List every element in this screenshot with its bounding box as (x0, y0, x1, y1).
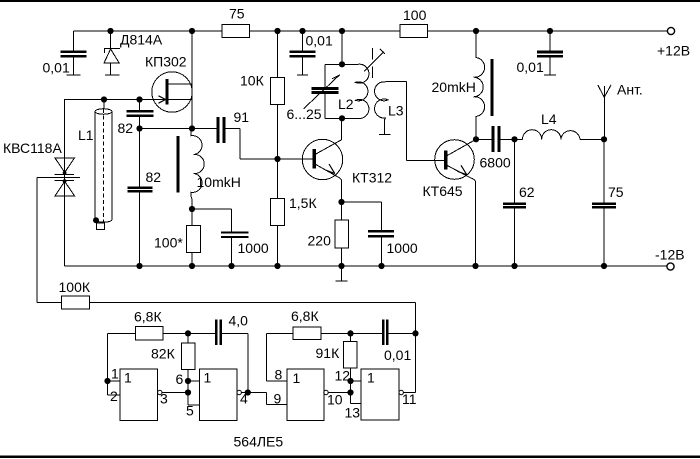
wire: 0,01-3 to feedback vertical (389, 332, 416, 334)
junction rail/C-0.01-2 (299, 28, 305, 34)
label L3 (388, 103, 404, 119)
junction rail/C-0.01-4 (547, 28, 553, 34)
value label 75 output (608, 184, 624, 200)
wire: L3 to KT645 base (406, 81, 444, 160)
wire: gate1 input branch (108, 333, 136, 395)
svg-text:6800: 6800 (480, 155, 511, 171)
svg-text:0,01: 0,01 (384, 347, 411, 363)
svg-text:0,01: 0,01 (306, 33, 333, 49)
capacitor 4,0 (215, 319, 222, 345)
junction gate3 output node (347, 389, 353, 395)
value label 20mkH (432, 79, 476, 95)
pin label 6 (176, 371, 184, 387)
svg-text:6,8К: 6,8К (134, 309, 162, 325)
value label 4,0 (229, 313, 249, 329)
svg-text:9: 9 (274, 391, 282, 407)
wire: gate line y=99.5 (65, 99, 193, 101)
value label 6...25 (287, 106, 322, 122)
junction L2 top (339, 61, 345, 67)
value label 100 top (403, 7, 427, 23)
svg-text:10: 10 (327, 392, 343, 408)
capacitor 0,01 (fourth) (537, 31, 563, 75)
label L4 (541, 111, 557, 127)
svg-text:82: 82 (118, 120, 134, 136)
svg-text:82: 82 (146, 169, 162, 185)
wire: L2 top/bottom horizontals and left branch (325, 64, 358, 118)
resistor 75 (top) (222, 25, 250, 38)
svg-text:6...25: 6...25 (287, 106, 322, 122)
junction rail/62 (511, 263, 517, 269)
svg-text:6,8К: 6,8К (291, 308, 319, 324)
svg-text:13: 13 (345, 405, 361, 421)
svg-text:62: 62 (519, 184, 535, 200)
value label 75 top (229, 6, 245, 22)
svg-text:1: 1 (367, 370, 375, 386)
junction gate-wire/C-82-1 (136, 96, 142, 102)
junction L2 bottom (339, 115, 345, 121)
label Д814А (120, 32, 163, 48)
svg-text:1,5К: 1,5К (289, 195, 317, 211)
capacitor 1000 (second) (368, 230, 394, 266)
value label 1000 second (387, 240, 418, 256)
label КВС118А (3, 140, 62, 156)
label КП302 (145, 54, 187, 70)
pin label 2 (110, 388, 118, 404)
value label 91 (234, 109, 250, 125)
svg-text:8: 8 (275, 367, 283, 383)
svg-text:L1: L1 (78, 127, 94, 143)
wire: gate3 input branch (267, 333, 294, 381)
value label 1,5К (289, 195, 317, 211)
junction rail/1000-1 (228, 263, 234, 269)
svg-text:100*: 100* (154, 235, 183, 251)
junction gate1 inputs (104, 378, 110, 384)
pin label 4 (240, 391, 248, 407)
value label 91К (316, 345, 341, 361)
svg-text:1: 1 (293, 370, 301, 386)
wire: varactor bottom to -12V rail (64, 158, 66, 266)
svg-text:КП302: КП302 (145, 54, 187, 70)
junction rail/L2 (339, 28, 345, 34)
capacitor 0,01 (second) (290, 31, 316, 75)
svg-text:1: 1 (124, 370, 132, 386)
pin label 11 (402, 391, 417, 407)
junction gate1 output node (185, 389, 191, 395)
value label 62 (519, 184, 535, 200)
junction 4,0/gate2-out (245, 389, 251, 395)
node -12V terminal (655, 247, 685, 271)
resistor 6,8К (first) (136, 327, 164, 340)
junction 82-cap/source-row (136, 125, 142, 131)
trimmer capacitor 6...25 (304, 75, 341, 109)
junction rail/82-lower (136, 263, 142, 269)
resistor 6,8К (second) (293, 327, 321, 340)
svg-text:100К: 100К (59, 279, 91, 295)
inductor L4 (515, 130, 605, 140)
svg-text:12: 12 (335, 368, 351, 384)
wire: left vertical to varactor (64, 99, 66, 158)
svg-text:220: 220 (308, 233, 332, 249)
ground stub below rail (336, 266, 348, 281)
junction rail/KT645 emitter (472, 263, 478, 269)
capacitor 6800 (476, 126, 515, 152)
wire: 6,8K-2 to 0,01 row (321, 332, 382, 334)
svg-text:КВС118А: КВС118А (3, 140, 62, 156)
junction KT312 emitter node (338, 199, 344, 205)
value label 0,01 fourth (517, 59, 544, 75)
svg-text:6: 6 (176, 371, 184, 387)
svg-text:-12В: -12В (655, 247, 685, 263)
junction rail/1000-2 (378, 263, 384, 269)
svg-text:91: 91 (234, 109, 250, 125)
svg-text:Д814А: Д814А (120, 32, 163, 48)
junction rail/Q1 drain (189, 28, 195, 34)
junction rail/VD1 (107, 28, 113, 34)
zener diode VD1 Д814А (104, 31, 120, 75)
junction rail/75-output (601, 263, 607, 269)
wire: feedback line y=302 (90, 302, 416, 392)
wire: gate3 out to gate4 in (328, 392, 350, 394)
inductor 10mkH with core (177, 129, 205, 210)
svg-text:L2: L2 (338, 96, 354, 112)
value label 6,8К first (134, 309, 162, 325)
svg-text:11: 11 (402, 391, 417, 407)
junction rail/R-10K (274, 28, 280, 34)
wire: gate4 out to feedback (403, 392, 415, 394)
wire: rail to L2 top (341, 31, 343, 64)
gate U1.3 (564ЛЕ5) (287, 369, 328, 421)
pin label 13 (345, 405, 361, 421)
transistor Q3 КТ645 (435, 139, 476, 266)
wire: varactor tap to 100K (37, 178, 80, 303)
value label 0,01 (C1) (43, 60, 70, 76)
junction gate-wire/L1 (101, 96, 107, 102)
transistor Q2 КТ312 (302, 139, 342, 202)
wire: emitter to C1000-2 (342, 202, 382, 230)
svg-text:L3: L3 (388, 103, 404, 119)
junction gate4 pin12 (347, 378, 353, 384)
transistor Q1 КП302 (FET) (152, 72, 192, 112)
wire: gate2 out to gate3 in (241, 393, 287, 405)
label 564ЛЕ5 (234, 434, 284, 450)
wire: 4,0 to gate2 output (222, 333, 248, 392)
resistor 100* (187, 209, 201, 266)
resistor 10К (271, 31, 285, 159)
pin label 10 (327, 392, 343, 408)
resistor 220 (335, 202, 349, 266)
svg-text:5: 5 (186, 403, 194, 419)
svg-text:0,01: 0,01 (517, 59, 544, 75)
gate U1.1 (564ЛЕ5) (120, 369, 162, 421)
junction rail/L-20mkH (473, 28, 479, 34)
pin label 5 (186, 403, 194, 419)
label КТ645 (423, 183, 463, 199)
junction rail/1,5K (274, 263, 280, 269)
inductor L3 (375, 81, 407, 134)
svg-text:1000: 1000 (238, 240, 269, 256)
svg-text:КТ312: КТ312 (352, 170, 392, 186)
svg-text:+12В: +12В (657, 43, 690, 59)
value label 0,01 second (306, 33, 333, 49)
junction feedback/0,01-3 (412, 330, 418, 336)
value label 6800 (480, 155, 511, 171)
junction gate2 pin6 (185, 378, 191, 384)
svg-text:Ант.: Ант. (617, 82, 643, 98)
value label 100* (154, 235, 183, 251)
node +12V terminal (657, 27, 690, 58)
capacitor 75 (output) (592, 139, 616, 266)
capacitor C1 0,01 (61, 31, 87, 75)
svg-text:0,01: 0,01 (43, 60, 70, 76)
capacitor 0,01 (third) (382, 319, 388, 345)
value label 1000 first (238, 240, 269, 256)
junction 10mkH/100*/1000 (189, 206, 195, 212)
inductor L2 (355, 64, 369, 118)
junction L4/antenna/75 (601, 136, 607, 142)
resistor 100 (top) (400, 25, 428, 38)
capacitor 1000 (first) (192, 209, 249, 266)
junction 6800/62/L4 (511, 136, 517, 142)
capacitor 91 (217, 117, 226, 143)
antenna symbol (598, 85, 611, 140)
junction rail/100* (189, 263, 195, 269)
value label 10mkH (197, 174, 241, 190)
svg-text:564ЛЕ5: 564ЛЕ5 (234, 434, 284, 450)
pin label 1 (111, 366, 119, 382)
resistor 82К (182, 333, 200, 405)
wire: drain/source vertical x=192 (191, 31, 193, 129)
pin label 12 (335, 368, 351, 384)
wire: L2 bottom to KT312 collector (341, 118, 343, 140)
wire: gate1 out to gate2 in (162, 392, 188, 394)
variable capacitor (coupling, unlabeled) (364, 48, 385, 78)
junction base/R-dividers (274, 156, 280, 162)
wire: 91-cap to KT312 base (226, 129, 313, 160)
svg-text:20mkH: 20mkH (432, 79, 476, 95)
varactor VD2 КВС118А (55, 158, 75, 196)
svg-text:1: 1 (204, 370, 212, 386)
junction 82К top (185, 330, 191, 336)
value label 6,8К second (291, 308, 319, 324)
label L2 (338, 96, 354, 112)
svg-text:91К: 91К (316, 345, 341, 361)
value label 82К (151, 346, 176, 362)
svg-text:10К: 10К (240, 73, 265, 89)
value label 220 (308, 233, 332, 249)
svg-text:4,0: 4,0 (229, 313, 249, 329)
resistor 91К (344, 333, 362, 403)
label КТ312 (352, 170, 392, 186)
value label 0,01 third (384, 347, 411, 363)
capacitor 82 (upper) (127, 100, 154, 187)
inductor L1 (rod) (93, 100, 112, 230)
capacitor 82 (lower) (128, 186, 153, 266)
wire: -12V bottom rail (65, 265, 667, 267)
resistor 1,5К (271, 159, 285, 266)
svg-text:1000: 1000 (387, 240, 418, 256)
pin label 8 (275, 367, 283, 383)
svg-text:L4: L4 (541, 111, 557, 127)
gate U1.4 (564ЛЕ5) (361, 369, 403, 420)
svg-text:100: 100 (403, 7, 427, 23)
svg-text:75: 75 (608, 184, 624, 200)
svg-text:КТ645: КТ645 (423, 183, 463, 199)
wire: +12V top rail (74, 30, 668, 32)
wire: 6,8K to 4,0 row (163, 332, 215, 334)
resistor 100К (62, 296, 90, 309)
junction rail/220 (338, 263, 344, 269)
label L1 (78, 127, 94, 143)
pin label 3 (160, 391, 168, 407)
svg-text:82К: 82К (151, 346, 176, 362)
value label 82 lower (146, 169, 162, 185)
junction 91К top (347, 330, 353, 336)
gate U1.2 (564ЛЕ5) (200, 369, 242, 421)
junction KT645 collector/20mkH (473, 136, 479, 142)
label Ант. (617, 82, 643, 98)
inductor 20mkH with core (473, 31, 493, 139)
svg-text:75: 75 (229, 6, 245, 22)
value label 100К (59, 279, 91, 295)
value label 10К (240, 73, 265, 89)
svg-text:2: 2 (110, 388, 118, 404)
wire: source row y=128.5 (140, 128, 217, 130)
capacitor 62 (503, 139, 526, 266)
pin label 9 (274, 391, 282, 407)
junction source/10mkH (189, 125, 195, 131)
svg-text:1: 1 (111, 366, 119, 382)
svg-text:10mkH: 10mkH (197, 174, 241, 190)
value label 82 upper (118, 120, 134, 136)
